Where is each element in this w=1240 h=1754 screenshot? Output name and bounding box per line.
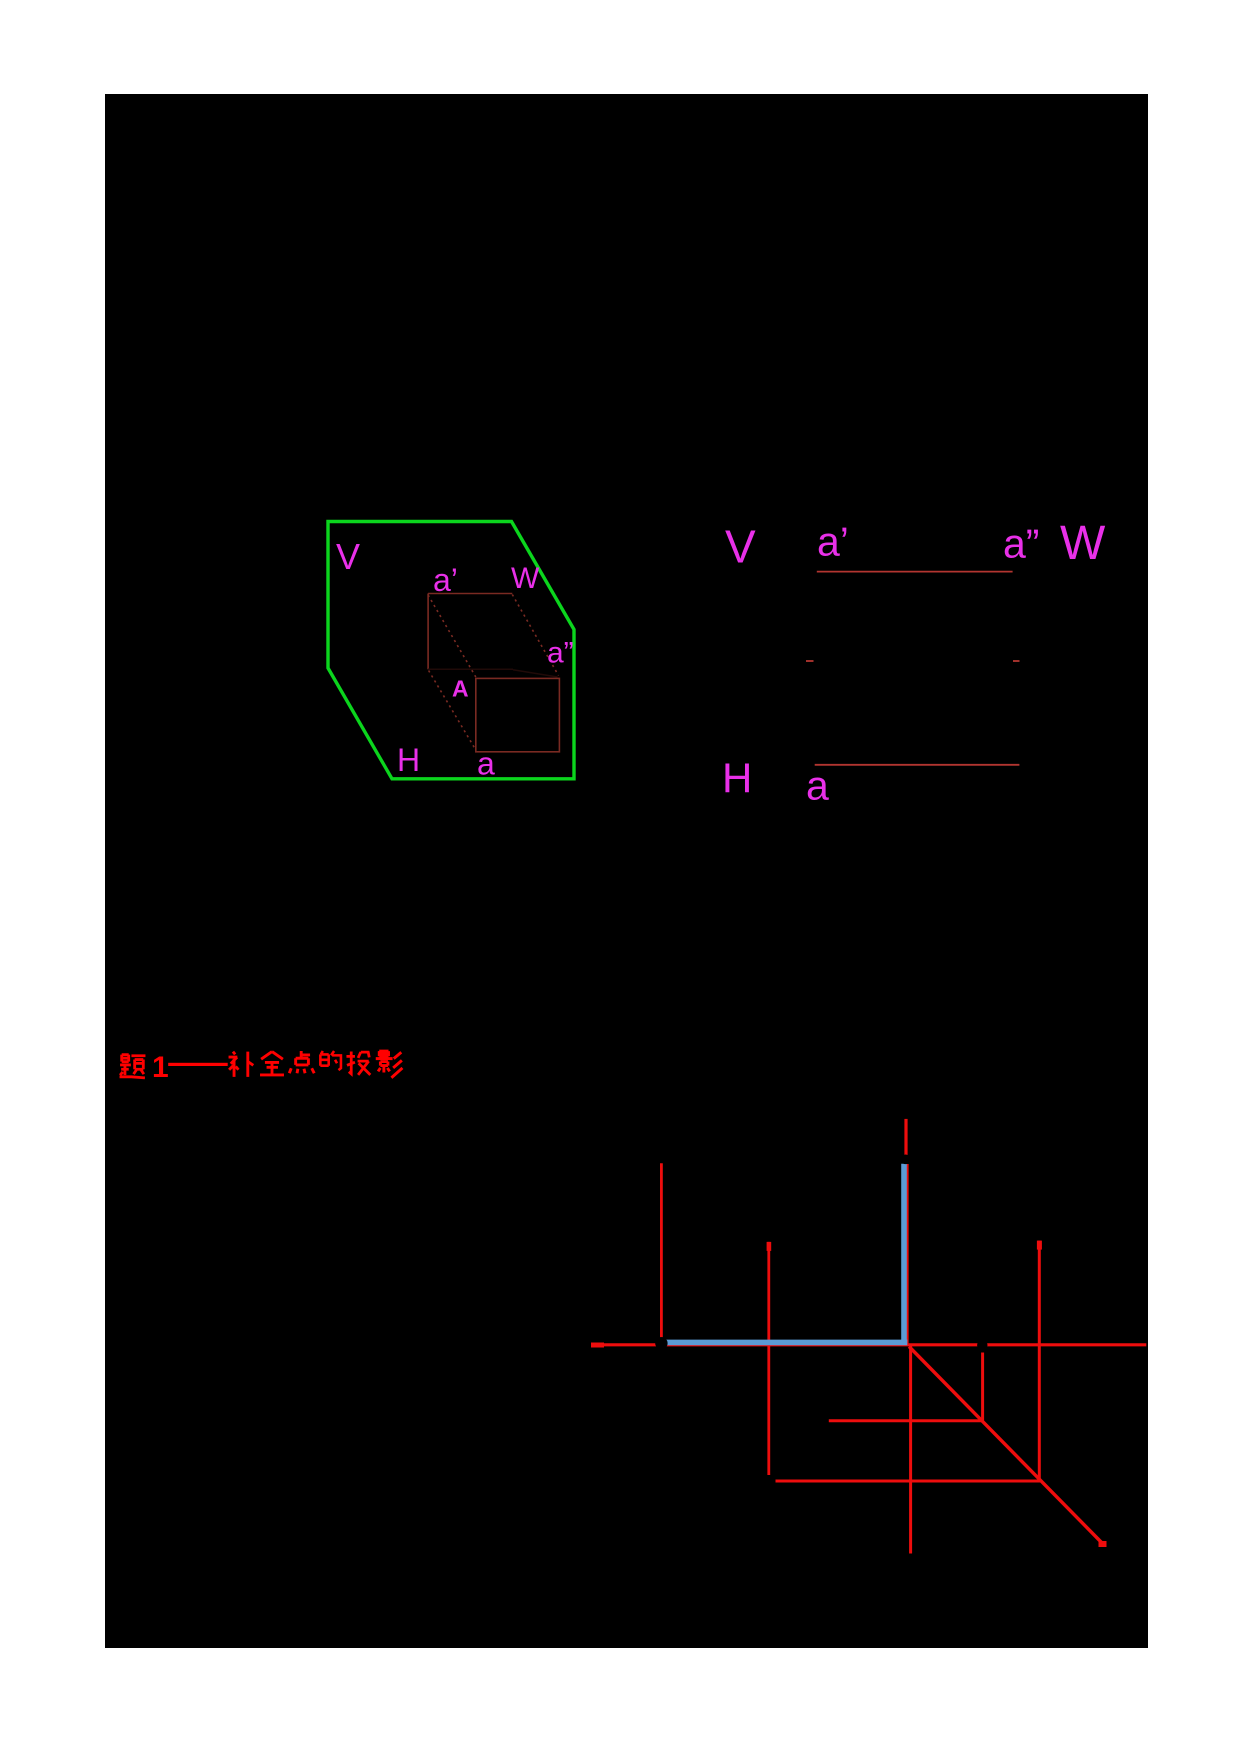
middle tick left	[806, 660, 814, 662]
hanzi DE (的)	[320, 1051, 341, 1070]
below-origin vertical	[909, 1346, 912, 1554]
right vertical top cap	[1037, 1241, 1042, 1250]
svg-text:H: H	[397, 742, 420, 778]
hanzi QUAN (全)	[260, 1052, 284, 1075]
dashed edge bottom-left to a	[429, 671, 476, 750]
Y axis diagonal	[909, 1347, 1105, 1546]
middle horizontal	[829, 1419, 983, 1422]
diagonal end cap	[1099, 1541, 1107, 1547]
svg-text:V: V	[725, 521, 756, 573]
left tall vertical	[660, 1163, 663, 1337]
blue vertical highlight	[901, 1164, 907, 1344]
svg-text:W: W	[1060, 517, 1106, 570]
lower horizontal	[776, 1480, 1042, 1483]
black dot on axis	[977, 1340, 987, 1350]
Z axis upper segment	[904, 1119, 907, 1155]
dashed edge top-right to a''	[512, 595, 558, 676]
svg-text:a: a	[477, 745, 495, 781]
black dot at left end of blue	[655, 1337, 667, 1349]
faint hidden edge to front corner	[513, 670, 558, 677]
black slide background	[105, 94, 1148, 1648]
svg-text:a”: a”	[1003, 520, 1039, 566]
green projection box outline	[328, 522, 574, 779]
Z axis lower segment under blue	[906, 1164, 909, 1345]
cube V-plane top edge	[428, 593, 512, 595]
cube front face	[476, 678, 560, 751]
svg-text:1: 1	[152, 1051, 169, 1084]
svg-text:a’: a’	[817, 519, 849, 565]
cube V-plane faint bottom edge	[428, 668, 513, 670]
hanzi BU (补)	[229, 1052, 254, 1077]
black dot at top of blue vertical	[901, 1155, 911, 1165]
X axis left stub thicker	[591, 1343, 604, 1348]
svg-text:a”: a”	[547, 637, 574, 670]
hanzi TOU (投)	[346, 1052, 370, 1075]
hanzi DIAN (点)	[289, 1051, 314, 1073]
line a to right	[815, 764, 1020, 766]
svg-text:V: V	[336, 536, 360, 577]
cube V-plane left edge	[427, 594, 429, 670]
line a' to a''	[817, 571, 1013, 573]
hanzi YING (影)	[376, 1051, 403, 1078]
dashed edge a' to A	[428, 595, 476, 677]
hanzi TI (题)	[120, 1055, 146, 1078]
svg-text:a’: a’	[433, 562, 458, 598]
svg-text:H: H	[722, 754, 752, 801]
second vertical	[767, 1242, 770, 1475]
second vertical top cap	[767, 1242, 772, 1251]
svg-text:a: a	[806, 763, 829, 809]
X axis horizontal	[591, 1343, 1146, 1346]
blue horizontal highlight	[665, 1340, 907, 1346]
em dash bar	[168, 1063, 228, 1066]
svg-text:W: W	[511, 562, 540, 595]
right tall vertical	[1038, 1241, 1041, 1481]
svg-text:A: A	[452, 675, 469, 701]
short vertical below axis dot	[981, 1353, 984, 1421]
middle tick right	[1013, 660, 1020, 662]
